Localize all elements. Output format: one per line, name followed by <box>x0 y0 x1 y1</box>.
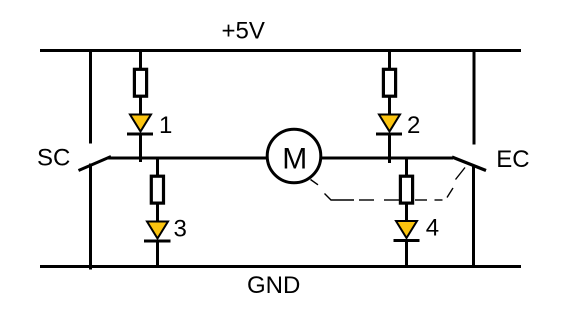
wire R2 to D2 <box>388 97 391 116</box>
resistor R3 <box>151 176 163 203</box>
branch 1: wire from +5V rail <box>139 49 142 69</box>
switch SC arm <box>79 157 112 171</box>
svg-text:SC: SC <box>37 145 70 172</box>
wire D3 to ground rail <box>156 242 159 267</box>
branch 3: wire from node <box>156 158 159 176</box>
wire D4 to ground rail <box>405 242 408 267</box>
diode D1 <box>127 115 153 135</box>
wire left rail upper <box>89 49 92 144</box>
svg-text:3: 3 <box>174 215 187 242</box>
wire right rail lower <box>472 165 475 267</box>
resistor R1 <box>134 69 146 96</box>
svg-text:1: 1 <box>159 112 172 139</box>
switch EC arm <box>452 157 486 171</box>
branch 2: wire from +5V rail <box>388 49 391 69</box>
power rail +5V <box>40 49 521 52</box>
wire D2 to node <box>388 135 391 163</box>
motor M <box>267 129 321 183</box>
wire R1 to D1 <box>139 97 142 116</box>
wire node left (SC to motor) <box>108 157 267 160</box>
resistor R4 <box>400 176 412 203</box>
wire R3 to D3 <box>156 204 159 223</box>
svg-text:M: M <box>282 142 307 175</box>
wire right rail upper <box>473 49 476 145</box>
ground rail GND <box>40 265 521 268</box>
svg-text:EC: EC <box>496 146 529 173</box>
mechanical link dashed (motor to EC switch) <box>311 168 466 201</box>
diode D4 <box>394 221 420 241</box>
wire D1 to node <box>139 135 142 162</box>
wire left rail lower <box>89 164 92 270</box>
wire node right (motor to EC) <box>321 157 453 160</box>
svg-text:+5V: +5V <box>222 18 265 45</box>
branch 4: wire from node <box>405 158 408 176</box>
svg-text:GND: GND <box>247 272 300 299</box>
wire R4 to D4 <box>405 204 408 223</box>
diode D2 <box>376 115 402 135</box>
svg-text:4: 4 <box>426 215 439 242</box>
resistor R2 <box>383 69 395 96</box>
svg-text:2: 2 <box>407 112 420 139</box>
diode D3 <box>144 222 171 242</box>
